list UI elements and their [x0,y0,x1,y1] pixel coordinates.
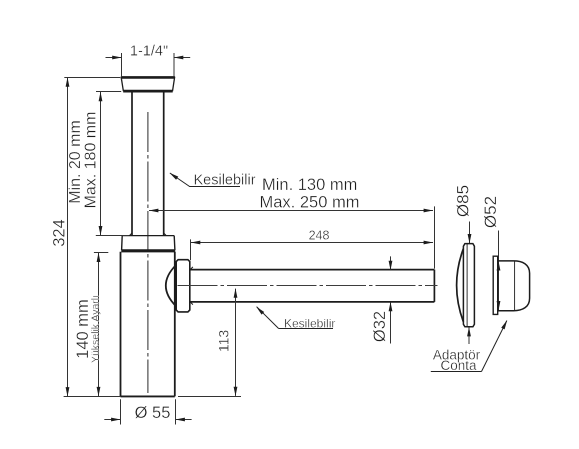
leader kesilebilir 2 [257,307,333,329]
arrow dim min130 right [424,209,433,213]
dimension 140: extension + line [94,253,108,397]
arrow dim 32 bottom [389,302,393,311]
arrow dim 113 bottom [234,387,238,396]
arrow dim 85 top [468,234,472,243]
arrow dim 32 top [389,261,393,270]
arrow dim 140 top [97,253,101,262]
svg-text:Conta: Conta [440,358,477,373]
arrow dim min20 bottom [99,226,103,235]
upper pipe [132,92,164,236]
dimension 113: line [178,289,241,397]
horizontal pipe [190,270,435,302]
svg-text:Yükselik Ayarlı: Yükselik Ayarlı [90,295,102,363]
arrow dim min130 left [149,209,158,213]
svg-text:113: 113 [216,330,232,353]
adaptor disc body [457,244,475,327]
svg-text:Kesilebilir: Kesilebilir [194,173,256,189]
body nut [121,236,175,251]
dimension diam55: extensions + lines [104,399,191,424]
adaptor disc inner face line [466,244,468,327]
arrow dim 113 top [234,288,238,396]
arrow leader kesilebilir2 [256,307,264,315]
arrow dim min20 top [99,92,103,101]
leader adaptor/conta [431,321,507,372]
dimension diam32: lines [390,256,392,343]
dimension 1-1/4 inch: lines [106,57,122,59]
svg-text:Min. 130 mm: Min. 130 mm [262,176,357,194]
arrow dim 140 bottom [97,387,101,396]
arrow dim 55 right [176,418,185,422]
arrow dim 1-1/4 right [174,56,183,60]
arrow dim 248 left [191,241,200,245]
svg-text:Ø52: Ø52 [481,196,500,228]
cap nut (top) [121,77,175,91]
svg-text:Max. 250 mm: Max. 250 mm [260,194,360,212]
outlet flange [176,260,190,312]
upper pipe chamfer ticks [130,233,166,235]
arrow dim 55 left [111,418,120,422]
gasket dome inner line [514,261,516,311]
svg-text:248: 248 [309,228,330,242]
adaptor disc left lens arc [457,249,464,322]
dimension diam52: line [498,231,500,311]
dimension 324: line [67,78,69,397]
svg-text:Ø 55: Ø 55 [135,404,171,422]
dimension 1-1/4 inch: extension lines [106,53,191,76]
svg-text:1-1/4": 1-1/4" [130,44,168,60]
dimension Min20/Max180: extension + line [96,92,129,236]
svg-text:Ø85: Ø85 [454,185,473,217]
outlet bulge arc [166,265,176,307]
gasket plate [493,256,498,314]
arrow dim 248 right [424,241,433,245]
arrowheads [66,56,508,422]
svg-text:324: 324 [51,219,69,247]
horizontal pipe chamfer ticks [190,267,193,305]
body cylinder [121,252,175,397]
vertical center line [147,112,149,393]
arrow dim 52 bottom [497,301,501,310]
dimension Min130/Max250: line [149,210,433,212]
dimension 324: extension lines [64,78,121,397]
svg-text:Ø32: Ø32 [371,311,389,342]
dimension diam85: lines [468,222,471,345]
arrow leader conta [501,320,507,329]
gasket dome [498,261,530,311]
arrow dim 1-1/4 left [112,56,121,60]
arrow dim 85 bottom [467,327,471,336]
svg-text:Min. 20 mm: Min. 20 mm [67,120,84,204]
arrow dim 52 top [497,261,501,270]
svg-text:Max. 180 mm: Max. 180 mm [83,112,100,209]
arrow dim 324 top [66,77,70,86]
leader kesilebilir 1 [170,173,240,187]
dimension 248: extensions + line [191,206,435,268]
arrow dim 324 bottom [66,387,70,396]
arrow leader kesilebilir1 [169,173,178,180]
svg-text:Kesilebilir: Kesilebilir [284,316,335,330]
horizontal center line [178,285,438,287]
